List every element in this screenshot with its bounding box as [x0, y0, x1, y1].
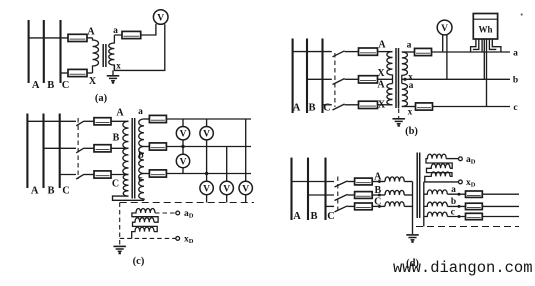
switch blade phase A (d) — [335, 181, 348, 187]
wire bus A to fuse FU1 (a) — [29, 37, 68, 39]
svg-text:(b): (b) — [405, 126, 418, 137]
primary star point lead (d) — [412, 182, 414, 235]
wire switch to fuse FU1 (b) — [345, 51, 359, 53]
figure (a) busbar C — [59, 20, 61, 83]
primary winding (a) — [93, 38, 99, 73]
switch blade phase C (d) — [335, 206, 348, 212]
fuse FU3 (d) — [355, 203, 373, 210]
junction dot wire b (c) — [181, 145, 184, 148]
fuse FU4 (c) — [149, 115, 166, 122]
svg-text:a: a — [513, 49, 518, 59]
svg-text:B: B — [308, 103, 315, 114]
primary winding B (d) — [385, 190, 404, 195]
wire fuse FU2 to winding B (c) — [111, 147, 129, 149]
svg-text:x: x — [408, 107, 413, 117]
fuse FU5 (d) — [466, 203, 483, 209]
svg-text:c: c — [138, 175, 142, 185]
svg-text:b: b — [513, 76, 518, 86]
wire switch to fuse FU3 (b) — [345, 104, 359, 106]
watthour meter Wh box (b) — [473, 14, 497, 40]
figure (d) busbar C — [324, 158, 326, 220]
wire a to right (d) — [482, 193, 519, 195]
svg-text:a: a — [451, 185, 456, 195]
wire voltmeter to terminal x (a) — [114, 24, 164, 70]
fuse FU1 (a) — [68, 34, 87, 41]
voltmeter lead to wire a (b) — [442, 35, 444, 52]
ground (b) — [392, 118, 405, 120]
svg-text:A: A — [87, 27, 95, 38]
primary winding A (d) — [385, 177, 404, 182]
svg-text:B: B — [310, 211, 317, 222]
fuse FU2 (c) — [94, 145, 111, 152]
neutral rail dashed (c) — [120, 202, 254, 204]
wire fuse FU2 to terminal X (a) — [87, 72, 93, 74]
svg-text:V: V — [157, 13, 164, 23]
secondary winding b (c) — [139, 147, 144, 174]
wire bus C to switch (c) — [60, 174, 76, 176]
wire fuse FU1 to winding (b) — [378, 51, 393, 53]
wire a secondary (c) — [144, 118, 149, 120]
svg-text:C: C — [112, 179, 119, 190]
svg-text:c: c — [451, 207, 455, 217]
svg-text:B: B — [47, 186, 54, 197]
auxiliary winding section 2 (d) — [427, 164, 453, 177]
voltmeter PV4 (c) — [200, 181, 213, 194]
fuse FU3 (b) — [359, 101, 378, 108]
ground lead dashed (b) — [398, 101, 400, 118]
switch gang link dashed (c) — [77, 118, 79, 179]
wire c to right (b) — [433, 106, 511, 108]
Wh current coil hook left inner (b) — [473, 39, 479, 49]
wire a to right (b) — [432, 51, 511, 53]
lead to terminal aD (d) — [446, 158, 458, 160]
svg-text:(c): (c) — [133, 256, 145, 267]
figure (d) busbar A — [290, 158, 292, 220]
wire terminal a to voltmeter (a) — [114, 24, 155, 35]
auxiliary winding section 3 (d) — [425, 172, 450, 182]
speck top right — [521, 13, 523, 15]
wire b to right (c) — [166, 146, 251, 148]
secondary winding ax upper (b) — [402, 52, 408, 84]
wire bus B to switch (b) — [307, 78, 332, 80]
wire fuse FU2 to winding (b) — [378, 78, 393, 80]
wire switch to fuse FU2 (c) — [84, 147, 94, 149]
figure (c) busbar C — [59, 114, 61, 189]
svg-text:C: C — [62, 186, 70, 197]
auxiliary winding section 1 (d) — [426, 154, 452, 168]
voltmeter lead to wire b (b) — [446, 35, 448, 80]
secondary winding c (d) — [424, 212, 448, 216]
switch gang link dashed (d) — [337, 177, 339, 211]
wire switch to fuse FU1 (c) — [84, 120, 94, 122]
secondary winding a (c) — [139, 119, 144, 147]
figure (c) busbar B — [42, 114, 44, 189]
fuse FU5 (c) — [149, 143, 166, 150]
wire switch to fuse FU1 (d) — [348, 181, 355, 183]
svg-text:C: C — [62, 80, 70, 91]
svg-text:a: a — [409, 81, 414, 91]
Wh current coil hook right outer (b) — [492, 39, 501, 52]
open-delta winding section 1 (c) — [132, 209, 158, 223]
svg-text:A: A — [32, 80, 40, 91]
svg-text:A: A — [116, 108, 124, 119]
switch gang link dashed (b) — [334, 53, 336, 107]
voltmeter PV1 (a) — [153, 10, 168, 25]
svg-text:V: V — [180, 157, 187, 167]
junction dot c (d) — [458, 215, 461, 218]
neutral to ground dashed (c) — [119, 203, 121, 246]
svg-text:V: V — [203, 184, 210, 194]
wire b secondary (b) — [402, 78, 510, 80]
svg-text:Wh: Wh — [478, 25, 492, 35]
wire switch to fuse FU2 (d) — [348, 194, 355, 196]
svg-text:X: X — [89, 76, 97, 87]
secondary winding a (d) — [424, 190, 448, 194]
Wh lead to wire a (b) — [481, 39, 483, 52]
svg-text:a: a — [138, 107, 143, 117]
svg-text:V: V — [180, 130, 187, 140]
primary winding C (d) — [385, 202, 404, 207]
ground (a) — [107, 75, 120, 77]
svg-text:a: a — [407, 41, 412, 51]
secondary winding ax lower (b) — [402, 84, 408, 107]
voltmeter PV6 (c) — [239, 181, 252, 194]
fuse FU4 (d) — [466, 191, 483, 197]
svg-text:www.diangon.com: www.diangon.com — [393, 259, 533, 277]
Wh lead to wire b (b) — [483, 39, 485, 79]
svg-text:A: A — [293, 211, 301, 222]
svg-text:(a): (a) — [95, 93, 108, 104]
fuse FU5 secondary c (b) — [416, 103, 433, 110]
wire c to right (c) — [166, 173, 251, 175]
wire bus C to switch (d) — [326, 205, 335, 207]
wire a secondary (b) — [402, 51, 415, 53]
open-delta winding section 3 (c) — [132, 227, 154, 238]
wire bus B to switch (c) — [44, 147, 77, 149]
terminal aD (d) — [459, 157, 463, 161]
svg-text:c: c — [513, 103, 517, 113]
wire bus A to switch (d) — [292, 181, 335, 183]
wire c to fuse (d) — [447, 216, 465, 218]
figure (b) busbar B — [306, 39, 308, 114]
svg-text:C: C — [327, 211, 335, 222]
core (a) — [102, 44, 104, 67]
svg-text:B: B — [113, 133, 120, 144]
terminal xD (c) — [176, 237, 180, 241]
junction dot C (d) — [378, 205, 381, 208]
switch blade phase B (c) — [76, 148, 84, 153]
wire fuse FU2 to winding (d) — [372, 194, 385, 196]
secondary winding (a) — [109, 35, 115, 70]
junction dot b-phase (b) — [403, 78, 406, 81]
ground (c) — [113, 245, 126, 247]
junction dot A (d) — [378, 180, 381, 183]
fuse FU1 (d) — [355, 178, 373, 185]
svg-text:X: X — [378, 100, 386, 111]
wire switch to fuse FU2 (b) — [345, 78, 359, 80]
fuse FU1 (b) — [359, 48, 378, 55]
primary winding A (c) — [123, 121, 129, 148]
fuse FU3 secondary (a) — [122, 31, 141, 38]
core (d) — [416, 153, 418, 219]
vertical a-b-c branch left (c) — [182, 119, 184, 174]
figure (b) busbar C — [321, 39, 323, 114]
svg-text:V: V — [242, 184, 249, 194]
wire fuse FU1 to terminal A (a) — [87, 37, 93, 39]
terminal aD (c) — [176, 211, 180, 215]
wire switch to fuse FU3 (d) — [348, 205, 355, 207]
svg-text:V: V — [203, 130, 210, 140]
wire fuse FU3 to winding (b) — [378, 104, 393, 106]
wire winding B to star (d) — [404, 194, 412, 196]
junction dot a (d) — [458, 193, 461, 196]
wire bus C to switch (b) — [323, 104, 332, 106]
switch blade phase C (b) — [333, 104, 345, 110]
switch blade phase B (d) — [335, 194, 348, 200]
wire fuse FU3 to winding (d) — [372, 205, 385, 207]
wire bus A to switch (b) — [293, 51, 332, 53]
voltmeter PV1 (c) — [176, 127, 189, 140]
fuse FU4 secondary a (b) — [415, 48, 432, 55]
wire b to right (d) — [482, 205, 519, 207]
vertical branch third (c) — [226, 147, 228, 203]
wire b secondary (c) — [144, 146, 149, 148]
figure (c) busbar A — [26, 114, 28, 189]
junction dot wire c (c) — [205, 172, 208, 175]
wire a to right (c) — [166, 118, 251, 120]
switch blade phase A (b) — [333, 51, 345, 57]
wire switch to fuse FU3 (c) — [84, 174, 94, 176]
figure (a) busbar B — [43, 20, 45, 83]
svg-text:A: A — [378, 40, 386, 51]
wire a to fuse (d) — [447, 193, 465, 195]
wire fuse FU1 to winding A (c) — [111, 120, 129, 122]
open-delta lead xD dashed (c) — [120, 237, 176, 239]
svg-text:A: A — [31, 186, 39, 197]
ground stub (a) — [112, 70, 114, 75]
core (c) — [131, 118, 133, 199]
primary star point to neutral (c) — [113, 196, 145, 200]
wire bus B to switch (d) — [308, 194, 334, 196]
fuse FU3 (c) — [94, 171, 111, 178]
primary winding C (c) — [123, 175, 128, 197]
fuse FU2 (d) — [355, 192, 373, 199]
switch blade phase B (b) — [333, 79, 345, 85]
voltmeter PV2 (c) — [176, 154, 189, 167]
figure (b) busbar A — [292, 39, 294, 114]
svg-text:x: x — [116, 61, 121, 71]
svg-text:b: b — [451, 197, 456, 207]
primary winding AX lower (b) — [387, 84, 393, 105]
primary winding B (c) — [123, 148, 129, 174]
junction dot b (d) — [458, 205, 461, 208]
wire winding A to star (d) — [404, 181, 412, 183]
Wh lead to wire c (b) — [486, 39, 488, 107]
fuse FU1 (c) — [94, 118, 111, 125]
wire bus C to fuse FU2 (a) — [61, 72, 69, 74]
voltmeter PV5 (c) — [220, 181, 233, 194]
Wh current coil hook right inner (b) — [489, 39, 496, 49]
fuse FU2 (a) — [68, 69, 87, 76]
svg-text:x: x — [408, 72, 413, 82]
svg-text:b: b — [138, 151, 143, 161]
secondary winding b (d) — [424, 202, 448, 206]
wire winding C to star (d) — [404, 205, 412, 207]
svg-text:B: B — [47, 80, 54, 91]
switch blade phase C (c) — [76, 174, 84, 179]
wire fuse FU1 to winding (d) — [372, 181, 385, 183]
voltmeter PV3 (c) — [200, 127, 213, 140]
figure (d) busbar B — [307, 158, 309, 220]
Wh current coil hook left outer (b) — [471, 39, 476, 52]
fuse FU6 (d) — [466, 213, 483, 219]
fuse FU2 (b) — [359, 76, 378, 83]
open-delta lead aD dashed (c) — [155, 212, 176, 214]
secondary star lead (d) — [423, 182, 425, 227]
switch blade phase A (c) — [76, 121, 84, 126]
open-delta winding section 2 (c) — [133, 218, 158, 232]
neutral rail dashed (d) — [416, 226, 519, 228]
svg-text:A: A — [293, 103, 301, 114]
svg-text:X: X — [377, 68, 385, 79]
figure (a) busbar A — [28, 20, 30, 83]
wire bus A to switch (c) — [27, 120, 76, 122]
fuse FU6 (c) — [149, 170, 166, 177]
secondary winding c (c) — [139, 174, 144, 201]
ground (d) — [406, 234, 419, 236]
svg-text:V: V — [441, 24, 448, 34]
vertical branch second (c) — [206, 119, 208, 203]
junction dot B (d) — [378, 194, 381, 197]
wire c to right (d) — [482, 216, 519, 218]
wire c secondary (c) — [144, 173, 149, 175]
voltmeter PV (b) — [437, 20, 452, 35]
wire fuse FU3 to winding C (c) — [111, 174, 129, 176]
svg-text:A: A — [377, 80, 385, 91]
wire c secondary (b) — [402, 106, 416, 108]
core (b) — [395, 48, 397, 108]
svg-text:V: V — [223, 184, 230, 194]
terminal xD (d) — [459, 180, 463, 184]
wire b to fuse (d) — [447, 205, 465, 207]
vertical branch fourth (c) — [245, 119, 247, 203]
lead to terminal xD (d) — [424, 181, 459, 183]
primary winding AX upper (b) — [387, 52, 393, 84]
